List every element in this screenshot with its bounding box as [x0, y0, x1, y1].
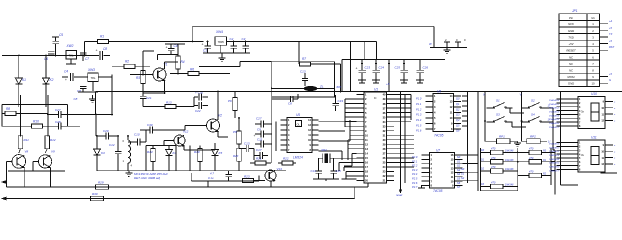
svg-text:R30: R30 [92, 192, 98, 196]
svg-text:S2: S2 [461, 176, 465, 180]
wire r7 drop [340, 64, 342, 92]
wire det top [96, 115, 146, 143]
svg-text:C5: C5 [59, 33, 63, 37]
svg-text:1N4148 4/: 1N4148 4/ [549, 114, 559, 117]
capacitor C23 polarized [356, 60, 371, 81]
resistor R18 [233, 118, 241, 149]
svg-text:C4: C4 [64, 70, 68, 74]
display U10 [549, 92, 616, 129]
ceramic filter ZL [272, 85, 342, 92]
svg-text:C25: C25 [395, 66, 401, 70]
capacitor C11 [255, 138, 272, 148]
svg-text:C27: C27 [55, 108, 61, 112]
wire display left bus [561, 92, 579, 186]
svg-text:C17: C17 [256, 148, 262, 152]
wire J box [191, 173, 259, 187]
transistor V13 [265, 167, 282, 181]
svg-text:1N4148 6/: 1N4148 6/ [549, 122, 559, 125]
svg-text:ZL: ZL [319, 85, 324, 89]
transistor V9 [39, 150, 56, 168]
resistor R6 [188, 68, 199, 76]
svg-text:P2.4: P2.4 [412, 172, 418, 176]
svg-text:reset: reset [396, 193, 402, 197]
svg-text:1N4148: 1N4148 [505, 184, 514, 187]
svg-text:IC: IC [374, 96, 377, 100]
op-amp U5 [281, 113, 319, 159]
capacitor C4 polarized [166, 44, 178, 55]
svg-text:GND: GND [568, 82, 574, 86]
svg-text:Pin: Pin [569, 16, 573, 20]
wire R3 top [143, 51, 154, 71]
resistor R4 [176, 44, 185, 74]
svg-text:P8: P8 [233, 130, 237, 134]
display U11 [549, 136, 616, 173]
wire c17 link [253, 149, 255, 161]
svg-text:G: G [609, 78, 611, 82]
svg-text:No: No [591, 16, 595, 20]
svg-text:Q4: Q4 [456, 118, 460, 122]
svg-text:1N4148 7/: 1N4148 7/ [549, 126, 559, 129]
wire osc box [272, 62, 335, 97]
resistor R1 [98, 35, 109, 44]
capacitor C21 [140, 93, 152, 103]
resistor R7 [299, 57, 341, 66]
svg-text:470: 470 [529, 147, 534, 151]
svg-text:C21: C21 [146, 96, 152, 100]
capacitor C14 [311, 158, 322, 179]
diode K4 [166, 146, 177, 171]
svg-text:C22: C22 [195, 109, 201, 113]
svg-text:R8: R8 [6, 107, 10, 111]
capacitor C2 [230, 37, 237, 53]
wire mcu right bus lower [394, 135, 414, 167]
svg-text:SCK: SCK [568, 22, 574, 26]
svg-text:Q1: Q1 [456, 102, 460, 106]
inverter U6 74C05 [416, 90, 461, 138]
capacitor C7b polarized [255, 117, 272, 128]
resistor P6 [228, 92, 237, 119]
svg-text:S0: S0 [461, 167, 465, 171]
svg-text:4 7: 4 7 [210, 172, 214, 176]
svg-text:Q2: Q2 [456, 107, 460, 111]
svg-text:Q3: Q3 [456, 113, 460, 117]
diode K3 [94, 136, 106, 171]
svg-text:OL: OL [297, 122, 301, 126]
svg-text:78L: 78L [68, 54, 73, 58]
wire R7 pullup [298, 42, 300, 65]
wire bus x478 [463, 92, 479, 192]
svg-text:C15: C15 [336, 169, 342, 173]
svg-text:P1.5: P1.5 [416, 123, 422, 127]
svg-text:P1.2: P1.2 [416, 107, 422, 111]
resistor R21 [250, 157, 271, 166]
wire mid rail [199, 62, 272, 67]
wire XW4 gnd [220, 45, 222, 53]
wire band left drop [95, 92, 97, 115]
wire riser a [20, 95, 22, 137]
wire V9 emitter [49, 168, 51, 188]
wire main input rail y=55.5 [2, 55, 95, 57]
svg-text:P1.6: P1.6 [416, 129, 422, 133]
svg-text:Q6: Q6 [456, 129, 460, 133]
svg-text:C8: C8 [103, 47, 107, 51]
capacitor C19 [332, 95, 343, 111]
inductor L1 coil [123, 136, 133, 171]
svg-text:Q5: Q5 [456, 123, 460, 127]
wire C4 node [157, 55, 178, 61]
svg-text:R12: R12 [50, 138, 56, 142]
svg-text:+A: +A [609, 19, 613, 23]
svg-text:C7: C7 [85, 57, 89, 61]
svg-text:S1: S1 [461, 172, 465, 176]
capacitor C20 polarized [194, 91, 208, 101]
wire switch route 1 [506, 104, 553, 114]
wire xw3 gnd bar [78, 91, 98, 93]
capacitor C3 [242, 37, 249, 53]
svg-text:C29: C29 [103, 129, 109, 133]
svg-text:P1.3: P1.3 [416, 113, 422, 117]
wire cap bank grounds [358, 80, 424, 83]
svg-text:+: + [166, 46, 168, 50]
wire top right drop [433, 27, 435, 48]
capacitor C24 [372, 60, 384, 81]
svg-text:1N4148: 1N4148 [505, 150, 514, 153]
wire R1 left [85, 42, 98, 56]
resistor R8 [2, 107, 48, 116]
ground switch [514, 141, 521, 146]
svg-text:P1.1: P1.1 [416, 102, 422, 106]
svg-text:U11: U11 [591, 136, 597, 140]
svg-text:1N4148 5/: 1N4148 5/ [549, 118, 559, 121]
svg-text:C10: C10 [134, 133, 140, 137]
resistor R3 [136, 71, 145, 94]
svg-text:1N4148 1/: 1N4148 1/ [549, 146, 559, 149]
wire switch drop [553, 108, 555, 150]
svg-text:S7: S7 [457, 185, 461, 189]
resistor R22 [278, 157, 296, 166]
wire det box [146, 146, 176, 171]
svg-text:P2.7: P2.7 [412, 185, 418, 189]
resistor R20v [233, 148, 241, 171]
wire mcu left bus [345, 99, 357, 137]
svg-text:R23: R23 [244, 175, 250, 179]
svg-text:LM324: LM324 [293, 155, 303, 159]
svg-text:U10: U10 [591, 92, 597, 96]
inverter U7 74C05 [412, 149, 463, 194]
svg-text:U7: U7 [436, 149, 440, 153]
wire u5 right wires [319, 107, 351, 160]
wire mcu right bus [394, 95, 411, 122]
svg-text:S2: S2 [531, 99, 535, 103]
svg-text:+: + [65, 78, 67, 82]
svg-text:1N4148 0/: 1N4148 0/ [549, 142, 559, 145]
svg-text:S3: S3 [496, 113, 500, 117]
resistor R29 [96, 181, 109, 190]
wire regulator ground [66, 59, 76, 64]
svg-text:P2.1: P2.1 [412, 159, 418, 163]
wire V1 collector [165, 62, 179, 68]
wire switch route 2 [506, 118, 553, 128]
svg-text:P2.3: P2.3 [412, 168, 418, 172]
capacitor C13b [239, 142, 254, 153]
svg-text:JP1: JP1 [572, 9, 578, 13]
wire +5V rail [109, 41, 204, 43]
svg-text:470: 470 [529, 170, 534, 174]
svg-text:U1: U1 [374, 88, 378, 92]
svg-text:C1: C1 [203, 49, 207, 53]
wire diode drop 2 [45, 56, 47, 79]
svg-text:R3: R3 [136, 76, 140, 80]
ground near C8 [89, 95, 96, 102]
svg-text:C19: C19 [338, 99, 344, 103]
wire left frame vertical [2, 105, 68, 127]
resistor R11 [18, 136, 29, 153]
capacitor C27 [48, 108, 112, 118]
svg-text:R4: R4 [181, 60, 185, 64]
svg-text:470: 470 [491, 165, 496, 169]
resistor RP2 [522, 121, 551, 144]
svg-text:P6: P6 [228, 99, 232, 103]
resistor R2 [112, 60, 150, 69]
svg-text:C30: C30 [147, 123, 153, 127]
wire det mid [184, 146, 215, 171]
wire V8 emitter [23, 168, 25, 188]
svg-text:74C05: 74C05 [434, 134, 444, 138]
svg-text:+5: +5 [386, 82, 390, 86]
wire regulator output rail [227, 41, 377, 43]
wire mcu left lower [344, 140, 357, 166]
svg-text:W: W [429, 42, 432, 46]
wire V2 base [163, 126, 207, 131]
wire grey top line [192, 27, 434, 42]
svg-text:RP2: RP2 [530, 135, 536, 139]
wire bus x467 [462, 92, 468, 184]
svg-text:+: + [202, 43, 204, 47]
svg-text:1N4148 3/: 1N4148 3/ [549, 110, 559, 113]
svg-text:1N4148 3/: 1N4148 3/ [549, 154, 559, 157]
svg-text:U6: U6 [437, 90, 441, 94]
switch S1 [487, 99, 513, 109]
wire osc bus [272, 97, 276, 163]
svg-text:V2: V2 [218, 114, 222, 118]
capacitor C26 [416, 60, 428, 81]
resistor R12 [45, 136, 56, 153]
capacitor C13c [300, 70, 308, 87]
svg-text:1N4148: 1N4148 [505, 159, 514, 162]
svg-text:RESET: RESET [566, 49, 576, 53]
svg-text:C3: C3 [242, 37, 246, 41]
svg-text:S0: S0 [457, 155, 461, 159]
wire C4 top rail [165, 43, 185, 45]
svg-text:RST: RST [609, 45, 615, 49]
capacitor C8c label [74, 97, 78, 101]
crystal B1 [319, 148, 335, 163]
wire cap ground bar [203, 53, 250, 58]
capacitor C8 polarized [95, 47, 110, 60]
wire V8 base [7, 161, 13, 187]
svg-text:V8: V8 [25, 150, 29, 154]
svg-text:C24: C24 [379, 66, 385, 70]
transistor V1 [153, 63, 168, 82]
svg-text:32M: 32M [321, 148, 327, 152]
capacitor C25 [395, 60, 408, 81]
wire band top rail [96, 91, 622, 93]
svg-text:1N4148 7/: 1N4148 7/ [549, 169, 559, 172]
capacitor C29 [96, 129, 118, 140]
svg-text:7805: 7805 [218, 40, 225, 44]
svg-text:C2: C2 [230, 37, 234, 41]
svg-text:470: 470 [491, 147, 496, 151]
svg-text:C9: C9 [257, 128, 261, 132]
svg-text:S1: S1 [457, 159, 461, 163]
wire mcu bottom pins [341, 171, 356, 179]
svg-text:R13: R13 [166, 101, 172, 105]
svg-text:XW2: XW2 [66, 44, 74, 48]
svg-text:DET AGC 30dB adj: DET AGC 30dB adj [134, 176, 160, 180]
svg-text:C23: C23 [365, 66, 371, 70]
capacitor C8b [77, 82, 93, 94]
svg-text:1N4148 5/: 1N4148 5/ [549, 162, 559, 165]
wire R6 leads [170, 73, 230, 75]
wire r7 band link [342, 42, 351, 92]
diode K2 [43, 78, 54, 107]
svg-text:+: + [254, 134, 256, 138]
connector JP1 [559, 9, 615, 87]
capacitor C16 [208, 171, 232, 181]
svg-text:XW4: XW4 [215, 30, 223, 34]
power flag 3 [455, 38, 466, 48]
wire V2 collector [217, 92, 219, 120]
transistor V12 [174, 130, 189, 147]
wire left arrow 1 [2, 181, 7, 187]
svg-text:C13: C13 [244, 142, 250, 146]
resistor R19 [194, 146, 202, 171]
svg-text:P2.0: P2.0 [412, 155, 418, 159]
switch S4 [522, 113, 548, 123]
wire display right stubs [601, 172, 618, 174]
voltage regulator XW2 [66, 44, 77, 59]
svg-text:470: 470 [529, 156, 534, 160]
resistor R14 [147, 146, 155, 171]
svg-text:C8: C8 [74, 97, 78, 101]
svg-text:R20: R20 [233, 154, 239, 158]
svg-text:C13: C13 [300, 70, 306, 74]
svg-text:74C05: 74C05 [433, 189, 443, 193]
capacitor C6b [272, 94, 298, 106]
svg-text:C11: C11 [257, 138, 263, 142]
transistor V8 [12, 150, 29, 169]
wire XW3 out [74, 76, 112, 78]
wire bank drop [386, 60, 390, 92]
svg-text:R22: R22 [283, 157, 289, 161]
diode K5 [212, 143, 223, 171]
wire switch frame [483, 92, 523, 122]
wire V1 emitter [143, 81, 165, 93]
capacitor C17 [254, 148, 268, 159]
svg-text:C12: C12 [109, 143, 115, 147]
wire cap bank top [342, 42, 445, 60]
wire mcu reset stub [396, 188, 402, 197]
svg-text:K5: K5 [219, 151, 223, 155]
svg-text:470: 470 [491, 156, 496, 160]
svg-text:C14: C14 [311, 169, 317, 173]
svg-text:1N4148 6/: 1N4148 6/ [549, 166, 559, 169]
svg-text:C28: C28 [55, 120, 61, 124]
wire u7 gnd [418, 185, 425, 188]
voltage regulator XW3 [87, 68, 98, 82]
svg-text:R1: R1 [100, 35, 104, 39]
svg-text:R10: R10 [33, 120, 39, 124]
svg-text:10: 10 [591, 82, 595, 86]
svg-text:R14: R14 [147, 150, 153, 154]
wire riser b [47, 95, 49, 137]
svg-text:S1: S1 [496, 99, 500, 103]
resistor column right [518, 147, 551, 178]
svg-text:XW3: XW3 [87, 68, 95, 72]
svg-text:V13: V13 [277, 167, 283, 171]
svg-text:P2.6: P2.6 [412, 181, 418, 185]
svg-text:K3: K3 [101, 151, 105, 155]
svg-text:K1: K1 [22, 78, 26, 82]
ground regulator [219, 58, 226, 61]
svg-text:TX: TX [609, 32, 613, 36]
svg-text:R19: R19 [194, 150, 200, 154]
resistor R23 [243, 175, 266, 183]
switch S3 [487, 113, 513, 123]
svg-text:P1.4: P1.4 [416, 118, 422, 122]
svg-text:0.1u: 0.1u [208, 176, 214, 180]
svg-text:R6: R6 [190, 68, 194, 72]
svg-text:+: + [96, 49, 98, 53]
capacitor C5 [52, 33, 63, 56]
svg-text:P2.5: P2.5 [412, 177, 418, 181]
wire rescol right bus [551, 150, 555, 195]
capacitor C12 [109, 136, 121, 171]
wire V1 base [130, 74, 153, 76]
svg-text:R2: R2 [125, 60, 129, 64]
switch S2 [522, 99, 548, 109]
svg-text:MOSI: MOSI [567, 75, 574, 79]
wire diode drop 1 [18, 56, 20, 79]
capacitor C15 [330, 158, 341, 179]
svg-text:P2.2: P2.2 [412, 164, 418, 168]
capacitor C4a polarized [62, 70, 73, 83]
capacitor C28b [55, 120, 80, 130]
svg-text:V9: V9 [51, 150, 55, 154]
svg-text:1N4148 1/: 1N4148 1/ [549, 103, 559, 106]
capacitor C7 [80, 53, 90, 61]
wire V12 wires [164, 141, 184, 151]
resistor RP1 [485, 121, 518, 144]
power flag 2 [444, 38, 451, 53]
svg-text:R11: R11 [24, 138, 30, 142]
wire bus labels [461, 167, 465, 180]
power flag VCC [429, 42, 467, 48]
wire c27 right drop [111, 75, 113, 115]
wire mcu right vert [401, 92, 412, 188]
wire rescol buses [481, 148, 552, 191]
svg-text:S2: S2 [457, 164, 461, 168]
svg-text:1N4148 0/: 1N4148 0/ [549, 99, 559, 102]
svg-text:P1.0: P1.0 [416, 97, 422, 101]
resistor R10 [32, 120, 59, 129]
diode K1 [15, 78, 26, 107]
svg-text:+: + [356, 67, 358, 71]
resistor R30 [91, 192, 104, 201]
svg-text:C26: C26 [423, 66, 429, 70]
voltage regulator XW4 [215, 30, 227, 45]
svg-text:U5: U5 [296, 113, 300, 117]
